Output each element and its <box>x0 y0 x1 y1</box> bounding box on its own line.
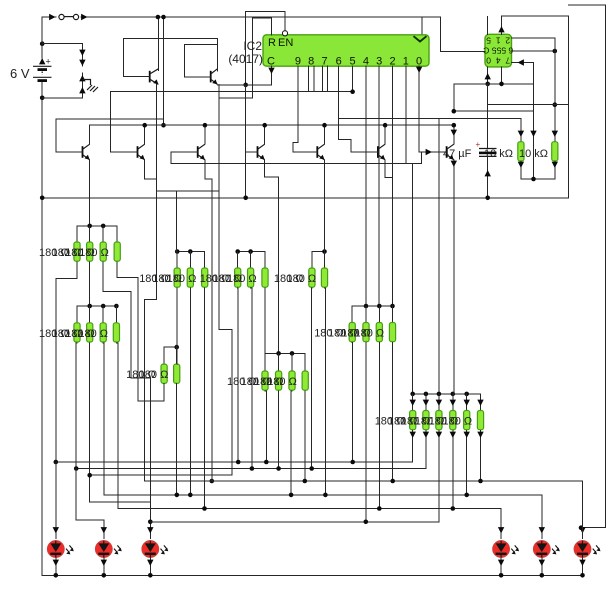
resistor R35 180 ohm <box>174 364 180 383</box>
wire R15 bottom to rail508 <box>204 288 206 509</box>
svg-text:7 4 0: 7 4 0 <box>486 56 510 66</box>
wire LED6 anode from right border stub <box>582 528 584 539</box>
node rail508 x204 <box>202 506 207 511</box>
wire y347 feed line with elbow to R12 <box>164 346 177 348</box>
resistor R5 180 ohm <box>87 242 93 261</box>
node rail462 start at LED1 column <box>54 460 59 465</box>
wire R12 top stub <box>163 347 165 364</box>
wire R26 bottom to rail521 <box>365 343 367 522</box>
LED D4 <box>493 541 519 558</box>
svg-text:180 Ω: 180 Ω <box>78 328 108 340</box>
wire y118 riser down to row E bus <box>438 118 440 394</box>
node 10k right column at y51 <box>553 49 558 54</box>
wire R5 bottom down to row C-left bus feed <box>89 262 91 306</box>
rail508 LED4 horizontal <box>118 508 501 510</box>
rail468 LED2 horizontal <box>76 468 426 470</box>
wire cap column from node down to capacitor <box>487 84 489 149</box>
wire R11 bottom to rail508 start <box>116 343 117 509</box>
wire R7 bottom staircase to R12 link <box>117 262 138 401</box>
svg-text:6 V: 6 V <box>10 66 30 81</box>
node +v bus at Q3 collector <box>203 123 208 128</box>
transistor Q2 <box>138 144 145 160</box>
node capacitor at ground rail <box>485 196 490 201</box>
wire capacitor bottom to ground rail <box>487 156 489 197</box>
wire pin 6 drop to Q6 base via y139.3 <box>339 66 378 152</box>
wire pin 2 drop into row C-right bus <box>392 66 394 306</box>
node rail481 x392 <box>390 479 395 484</box>
node CR R27 top <box>377 304 382 309</box>
node bottom rail under D4 <box>499 573 504 578</box>
node CR feed <box>390 304 395 309</box>
svg-text:180 Ω: 180 Ω <box>287 273 317 285</box>
battery B1 6 V <box>41 17 43 58</box>
wire D1 cathode to bottom rail <box>55 557 57 575</box>
node C-left feed <box>87 304 92 309</box>
resistor R24 180 ohm <box>302 371 308 390</box>
wire Q2 base riser to y91.7 line <box>110 92 137 152</box>
node top rail at drop <box>161 15 166 20</box>
node ground rail at left rail <box>40 196 45 201</box>
svg-text:180 Ω: 180 Ω <box>139 369 169 381</box>
node +v bus at Q4 collector <box>262 123 267 128</box>
wire R24 bottom to rail481 <box>304 391 306 481</box>
wire Q8 emitter long column down to rail481 via jogs <box>145 84 157 481</box>
wire D6 cathode to bottom rail <box>582 557 584 575</box>
node rail508 x379 <box>377 506 382 511</box>
node LED6 column top join <box>579 525 584 530</box>
wire R9 bottom to rail475 start then LED3 elbow <box>89 343 91 502</box>
node discharge riser at U <box>531 177 536 182</box>
wire top frame to right border <box>569 5 606 528</box>
rail475 horizontal <box>90 474 232 476</box>
wire resistor pair bottoms U join <box>521 162 555 179</box>
transistor Q8 <box>150 69 159 85</box>
rail521 horizontal <box>150 521 439 523</box>
wire pin 9 drop to Q5 base loop <box>293 66 318 152</box>
node rail481 x304 <box>303 479 308 484</box>
wire row B bus group3 <box>312 251 325 253</box>
node row A at R5 top <box>101 224 106 229</box>
resistor R7 180 ohm <box>114 242 120 261</box>
node 10k right column at h104 line <box>553 102 558 107</box>
wire 555 bottom-middle pin down to y84 line <box>501 67 503 84</box>
wire row C-right bus <box>352 305 392 307</box>
wire row B bus group2 <box>238 251 265 253</box>
svg-text:180 Ω: 180 Ω <box>443 416 473 428</box>
resistor R18 180 ohm <box>262 268 268 287</box>
resistor R2 10 k ohm mid column top from y118 line <box>406 118 521 141</box>
node E R30 top <box>424 392 429 397</box>
LED D2 <box>95 541 121 558</box>
rail495 LED5 horizontal <box>104 494 542 496</box>
svg-text:R: R <box>268 37 276 49</box>
resistor R4 180 ohm <box>74 242 80 261</box>
wire battery positive to push switch <box>42 44 82 50</box>
push switch S2 upper contact with arrows <box>81 50 83 66</box>
wire Q5 emitter down into bus group3 <box>324 160 326 252</box>
wire Q2 collector riser <box>144 125 146 144</box>
wire D2 cathode to bottom rail <box>103 557 105 575</box>
wire Q3 emitter hook down to rail481 <box>205 160 212 481</box>
wire row C-left bus <box>77 305 116 307</box>
wire Q2 emitter hook to Q8 emitter column <box>145 160 157 179</box>
LED D1 <box>47 541 73 558</box>
node row A feed from Q1 emitter <box>87 224 92 229</box>
wire top rail from battery to IC2 power <box>42 16 56 18</box>
wire 555 top-middle pin up and right to right riser <box>502 16 569 34</box>
wire horizontal y104.7 from cap column to right riser <box>488 104 569 106</box>
node rail462 x266 <box>264 460 269 465</box>
svg-text:180 Ω: 180 Ω <box>267 376 297 388</box>
resistor R9 180 ohm <box>87 323 93 342</box>
wire pin 4 drop into row C-right bus <box>365 66 367 306</box>
node rail495 x466 <box>464 493 469 498</box>
wire Q6 collector riser <box>384 125 386 144</box>
wire LED2 jog from rail468 column <box>76 469 104 539</box>
node rail481 at x211.8 <box>210 479 215 484</box>
wire right riser x568 from top to ground rail elbow <box>568 16 570 198</box>
wire R14 bottom to rail495 <box>189 288 191 495</box>
node pin5 at y91.7 <box>350 89 355 94</box>
wire D5 cathode to bottom rail <box>541 557 543 575</box>
wire Q5 collector riser <box>324 125 326 144</box>
IC U1 555 timer body (rotated) <box>485 34 512 67</box>
wire E elbows and stubs with arrows <box>412 394 414 411</box>
node rail508 x452 <box>451 506 456 511</box>
wire EN riser down to ground rail tapping Q4 base <box>245 85 247 198</box>
svg-text:180 Ω: 180 Ω <box>79 247 109 259</box>
resistor R20 180 ohm <box>321 268 327 287</box>
svg-text:180 Ω: 180 Ω <box>167 273 197 285</box>
wire row A bus <box>77 225 117 227</box>
wire Q9 base loop <box>184 45 217 78</box>
node 555 ground pin junction <box>485 82 490 87</box>
node rail481 x480 <box>478 479 483 484</box>
node B bus R14 top <box>188 249 193 254</box>
wire Q7 emitter down to row E feed <box>453 160 455 394</box>
LED D3 <box>142 541 168 558</box>
node rail495 x176 <box>175 493 180 498</box>
resistor R22 180 ohm <box>276 371 282 390</box>
wire R16 bottom to rail462 <box>237 288 240 462</box>
wire R pin loop up and left then down <box>253 18 272 98</box>
node rail495 x190 <box>188 493 193 498</box>
wire Q1 collector riser <box>89 125 91 144</box>
wire +v bus y125.2 from Q1 collector elbow to Q7 collector <box>90 124 454 126</box>
wire left rail battery negative down to bottom rail <box>41 80 43 575</box>
current arrow into switch <box>49 14 55 20</box>
resistor R6 180 ohm <box>100 242 106 261</box>
node E R31 top <box>437 392 442 397</box>
resistor R27 180 ohm <box>376 323 382 342</box>
wire R13 bottom to y347 node <box>176 288 178 364</box>
wire row D bus <box>265 352 305 354</box>
transistor Q4 <box>258 144 265 160</box>
wire discharge riser x533.5 down to resistor pair bottom U <box>533 63 535 180</box>
resistor R17 180 ohm <box>248 268 254 287</box>
wire R6 bottom staircase to LED3 column <box>103 262 150 502</box>
node rail468 start <box>74 466 79 471</box>
ground rail wire y198 from left rail to right riser <box>42 197 568 199</box>
wire IC2 supply drop with chevron <box>421 17 423 35</box>
wire Q9 collector riser <box>216 39 218 71</box>
node rail521 joins LED3 column <box>148 520 153 525</box>
wire row A right elbow to R7 top <box>116 226 118 242</box>
resistor R13 180 ohm <box>174 268 180 287</box>
node EN riser joins clock line <box>243 83 248 88</box>
wire Q4 collector riser <box>264 125 266 144</box>
wire clock line y84.9 from Q9 area to pin C <box>217 66 271 85</box>
node CR R26 top <box>364 304 369 309</box>
wire 555 left pin C to rail drop x440.6 <box>422 17 485 51</box>
wire y97.9 left to Q9 emitter column <box>219 97 253 99</box>
resistor R33 180 ohm <box>464 411 470 430</box>
wire R35 bottom to rail495 <box>176 383 178 495</box>
resistor R14 180 ohm <box>187 268 193 287</box>
svg-text:EN: EN <box>278 37 293 49</box>
wire B group1 stubs <box>176 252 178 269</box>
wire Q9 emitter down then right to rail475 end riser <box>219 84 232 475</box>
wire R22 bottom to rail468 <box>278 391 280 469</box>
wire pin 0 drop to Q7 base <box>419 66 447 152</box>
wire B group2 stubs <box>237 252 239 269</box>
node E R33 top <box>464 392 469 397</box>
svg-text:2 1 5: 2 1 5 <box>486 36 510 46</box>
wire top rail drop x163.5 down to +v bus <box>163 17 165 125</box>
svg-text:180 Ω: 180 Ω <box>227 273 257 285</box>
current arrow out of switch <box>81 14 87 20</box>
resistor R11 180 ohm <box>113 323 119 342</box>
wire Q8 collector up to top rail <box>157 17 159 71</box>
svg-text:6 555 C: 6 555 C <box>483 45 513 55</box>
transistor Q1 <box>83 144 90 160</box>
node +v bus at Q7 collector <box>452 123 457 128</box>
wire bus group1 feed drop from tie line <box>176 191 178 252</box>
wire R18 bottom into row D bus corner <box>264 288 266 353</box>
wire R17 bottom to rail468 <box>251 288 252 469</box>
wire rail495 end elbow down to LED5 <box>541 495 543 539</box>
resistor R21 180 ohm <box>262 371 268 390</box>
node rail521 x365 <box>364 520 369 525</box>
wire C-left elbow to R8 <box>76 306 78 323</box>
node row E bus left <box>410 392 415 397</box>
resistor R2 10 k body <box>518 142 524 161</box>
node rail495 x325 <box>323 493 328 498</box>
wire R5 top stub <box>89 226 91 242</box>
svg-text:180 Ω: 180 Ω <box>355 328 385 340</box>
resistor R12 180 ohm <box>161 364 167 383</box>
resistor R28 180 ohm <box>389 323 395 342</box>
current arrow into Q7 base <box>426 149 432 155</box>
resistor R30 180 ohm <box>423 411 429 430</box>
node rail468 x311 <box>309 466 314 471</box>
wire y84 line from T7 collector column to discharge riser <box>454 84 534 111</box>
node +v bus at Q6 collector <box>383 123 388 128</box>
IC U2 4017 decade counter body <box>263 35 429 66</box>
transistor Q6 <box>378 144 385 160</box>
node bottom rail under D1 <box>54 573 59 578</box>
node y347 line at row B column <box>174 345 179 350</box>
resistor R19 180 ohm <box>309 268 315 287</box>
node bottom rail under D2 <box>102 573 107 578</box>
node B3 R20 top <box>322 249 327 254</box>
wire rail481 end elbow down to LED6 <box>582 481 584 539</box>
node bottom rail under D6 <box>580 573 585 578</box>
wire Q7 collector riser <box>453 125 455 144</box>
node C-left R10 top <box>114 304 119 309</box>
push switch S2 lower contact with arrows <box>81 73 83 98</box>
node D R22 top <box>290 351 295 356</box>
wire y118 segment from pin6 column to pin1 column <box>339 117 406 119</box>
wire R12 bottom link to staircase <box>138 383 164 401</box>
wire h_a Q1 base line y118.8 <box>56 119 164 152</box>
wire R27 bottom to rail508 <box>378 343 380 509</box>
chevron power marker on IC2 top right <box>414 36 427 41</box>
resistor R29 180 ohm <box>410 411 416 430</box>
wire Q8 base loop extended to Q9 collector <box>124 39 218 77</box>
resistor R8 180 ohm <box>74 323 80 342</box>
push switch actuator bracket <box>82 80 90 86</box>
node rail462 x238 <box>236 460 241 465</box>
rail502 to LED3 column <box>90 501 151 503</box>
svg-text:10 kΩ: 10 kΩ <box>519 148 548 160</box>
wire 555 bottom-left pin down to node <box>487 67 489 84</box>
wire 10k right resistor column from top elbow down to body <box>554 38 556 142</box>
resistor R34 180 ohm <box>477 411 483 430</box>
wire pin 3 drop into row C-right bus <box>378 66 380 306</box>
wire R8 bottom to rail468 start <box>75 343 78 469</box>
node B2 R16 top <box>235 249 240 254</box>
resistor R31 180 ohm <box>436 411 442 430</box>
wire pin 8 stub pair <box>308 66 310 92</box>
wire Q4 base wire <box>246 151 258 153</box>
node bottom rail under D3 <box>148 573 153 578</box>
transistor Q5 <box>317 144 324 160</box>
current arrow into pin C <box>268 68 274 74</box>
wire CR elbows and stubs <box>351 306 353 323</box>
node battery positive <box>40 41 45 46</box>
node top rail at Q8 collector <box>156 15 161 20</box>
wire right border foot to LED6 column <box>581 527 606 529</box>
node 555 pin at y84 line <box>499 82 504 87</box>
node rail468 x251 <box>250 466 255 471</box>
resistor R10 180 ohm <box>100 323 106 342</box>
resistor R23 180 ohm <box>289 371 295 390</box>
IC2 reset bubble on top edge <box>282 31 287 36</box>
wire Q3 collector riser <box>204 125 206 144</box>
node D feed from Q4 emitter <box>276 351 281 356</box>
node C-left R9 top <box>101 304 106 309</box>
wire Q6 emitter jog to pin2 column <box>385 160 392 178</box>
wire 555 right-bottom pin to discharge riser <box>512 62 534 64</box>
wire rail508 end elbow down to LED4 <box>500 509 502 539</box>
wire E bottoms with arrows <box>412 431 414 463</box>
node rail475 start <box>87 473 92 478</box>
node rail468 x278 <box>276 466 281 471</box>
wire R4 bottom jog left to LED1 column <box>56 262 77 462</box>
resistor R16 180 ohm <box>235 268 241 287</box>
wire R35 top stub <box>176 347 178 364</box>
wire pin 5 drop to node then Q6 base line <box>352 66 354 92</box>
node bottom rail under D5 <box>540 573 545 578</box>
rail462 LED1 horizontal <box>56 461 413 463</box>
wire Q3 base loop via y163.6 line from pin0 riser <box>171 152 422 164</box>
transistor Q9 <box>211 69 218 85</box>
node T7 collector at y111 <box>452 109 457 114</box>
resistor R15 180 ohm <box>202 268 208 287</box>
wire row B bus group1 <box>177 251 205 253</box>
wire LED3 column continues down <box>149 502 151 539</box>
node +v bus at Q5 collector <box>322 123 327 128</box>
wire C-left stubs <box>89 306 91 323</box>
node B2 R17 top <box>248 249 253 254</box>
wire R19 bottom to rail468 <box>311 288 313 469</box>
bottom rail wire <box>42 574 581 576</box>
wire row E bus <box>413 393 481 395</box>
capacitor C1 47uF plates <box>479 148 497 150</box>
wire R6 top stub <box>102 226 104 242</box>
current arrow into 555 top pin <box>498 26 504 32</box>
node rail495 x291 <box>289 493 294 498</box>
wire R23 bottom to rail495 <box>290 391 293 495</box>
wire R25 bottom to rail462 <box>351 343 354 463</box>
svg-text:+: + <box>46 57 51 67</box>
node B bus R13 top <box>175 249 180 254</box>
wire row A left elbow to R4 top <box>76 226 78 242</box>
resistor R25 180 ohm <box>349 323 355 342</box>
wire Q1 emitter down to row A bus <box>89 160 91 226</box>
node rail462 x352 <box>350 460 355 465</box>
wire B group3 stubs <box>311 252 313 269</box>
LED D6 <box>574 541 600 558</box>
transistor Q3 <box>198 144 205 160</box>
resistor R32 180 ohm <box>450 411 456 430</box>
wire R10 bottom to rail495 start <box>102 343 105 495</box>
wire 555 right pin row2 to 10k resistor column <box>512 37 555 39</box>
wire R28 bottom to rail481 <box>392 343 394 482</box>
node EN riser at ground rail <box>243 196 248 201</box>
wire 555 right pin row mid to 10k column <box>512 50 555 52</box>
wire D4 cathode to bottom rail <box>500 557 502 575</box>
wire LED1 column down <box>55 462 57 539</box>
wire R21 bottom to rail462 <box>265 391 266 462</box>
wire D elbows and stubs <box>264 353 266 371</box>
wire pin 1 drop to Q3 base line <box>405 66 407 163</box>
push switch hatch marks <box>87 85 98 92</box>
node +v bus at Q2 collector <box>142 123 147 128</box>
wire EN bubble loop over to left riser <box>246 11 285 85</box>
wire D3 cathode to bottom rail <box>149 557 151 575</box>
transistor Q7 <box>447 144 454 160</box>
wire top rail segment right of switch <box>81 16 422 18</box>
wire 555 top-left pin stub <box>487 17 489 35</box>
LED D5 <box>533 541 559 558</box>
wire push switch to battery negative node <box>42 97 82 99</box>
node +v bus at drop x163.5 <box>161 123 166 128</box>
svg-text:+: + <box>476 140 481 149</box>
wire horizontal y111 from T7 collector node to discharge riser <box>454 110 534 112</box>
wire Q4 emitter jog down to row D feed <box>265 160 279 354</box>
wire riser from Q3 base line down to row E bus left end <box>412 164 414 394</box>
node E feed from Q7 emitter <box>451 392 456 397</box>
resistor R3 10 k body right <box>552 142 558 161</box>
wire R20 bottom to rail495 <box>324 288 327 495</box>
wire pin 7 stub pair <box>321 66 323 92</box>
wire y190.8 tie line <box>157 190 219 192</box>
switch SW1 (SPST) on top rail <box>59 14 64 19</box>
rail481 LED6 horizontal <box>145 480 583 482</box>
resistor R26 180 ohm <box>363 323 369 342</box>
